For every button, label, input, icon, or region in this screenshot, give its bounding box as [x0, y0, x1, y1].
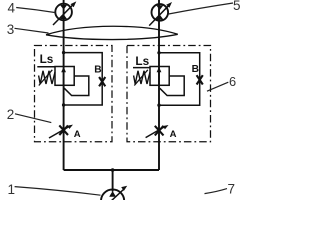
svg-text:3: 3	[7, 22, 15, 37]
pressure compensator valve right	[150, 67, 169, 86]
junction dot	[157, 51, 160, 54]
pilot loop right	[160, 76, 185, 96]
pressure compensator valve left	[55, 67, 74, 86]
throttle A left adjust arrow	[49, 126, 70, 138]
svg-text:6: 6	[229, 74, 236, 89]
spring adjust arrow right	[134, 70, 148, 86]
svg-text:1: 1	[8, 182, 16, 197]
leader line 2	[15, 114, 51, 123]
svg-text:B: B	[94, 65, 101, 76]
junction dot bottom rail	[111, 168, 115, 172]
leader line 6	[207, 82, 228, 91]
Ls pilot line left	[37, 66, 55, 68]
leader line 1	[15, 187, 101, 196]
junction dot	[157, 104, 160, 107]
svg-text:7: 7	[228, 181, 236, 196]
bypass branch with throttle B right	[159, 53, 200, 105]
enclosure box right (item 6 group)	[127, 46, 211, 142]
enclosure box left (item 2 group)	[35, 46, 113, 142]
svg-text:B: B	[192, 64, 199, 75]
svg-text:A: A	[170, 129, 177, 140]
wire: left main vertical line through valve down to bottom rail	[63, 20, 65, 170]
throttle B right (orifice)	[197, 75, 203, 84]
junction dot	[62, 103, 65, 106]
svg-text:5: 5	[233, 0, 240, 13]
wire: supply line from top to left motor	[63, 0, 65, 4]
oval frame (item 3)	[46, 26, 178, 39]
spring of right compensator	[134, 71, 150, 84]
wire: supply line from top to right motor	[158, 0, 160, 4]
pilot loop left	[64, 76, 89, 96]
spring of left compensator	[39, 71, 55, 84]
leader line 7	[205, 189, 228, 194]
variable hydraulic motor (item 4)	[53, 1, 76, 25]
junction dot	[62, 51, 65, 54]
svg-text:Ls: Ls	[135, 54, 149, 68]
bypass branch with throttle B left	[64, 53, 103, 105]
wire: bottom rail	[64, 169, 159, 171]
svg-text:Ls: Ls	[40, 52, 54, 66]
svg-text:2: 2	[7, 107, 15, 122]
leader line 3	[15, 28, 49, 33]
Ls pilot line right	[133, 67, 150, 69]
svg-text:4: 4	[8, 1, 16, 16]
wire: right main vertical line through valve down to bottom rail	[158, 20, 160, 170]
adjustable throttle A left	[59, 125, 68, 135]
throttle B left (orifice)	[99, 77, 105, 86]
leader line 4	[16, 8, 55, 13]
wire: stub to pump	[112, 170, 114, 192]
variable pump (item 1)	[101, 186, 127, 213]
leader line 5	[169, 3, 233, 14]
spring adjust arrow left	[39, 70, 53, 86]
variable hydraulic motor (item 5)	[149, 2, 172, 26]
throttle A right adjust arrow	[146, 127, 165, 138]
adjustable throttle A right	[155, 126, 164, 136]
svg-text:A: A	[74, 129, 81, 140]
